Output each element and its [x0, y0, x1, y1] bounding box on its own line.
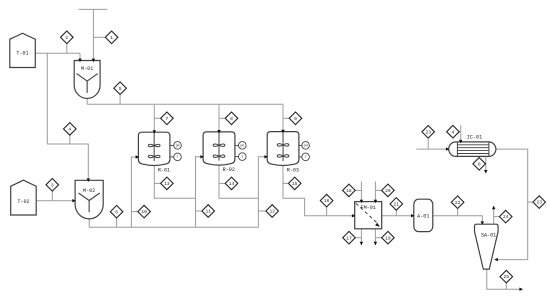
stream tag 9	[289, 112, 302, 125]
svg-text:T: T	[177, 155, 179, 159]
wire FM-01 bottom waste left	[360, 229, 362, 245]
arrow into FM-01 top right	[374, 200, 377, 204]
svg-text:3: 3	[51, 182, 54, 188]
coolant tag 8 at IC-01 outlet	[473, 158, 486, 171]
wire stub stream tag 5	[119, 94, 121, 104]
svg-text:1: 1	[110, 35, 113, 41]
svg-text:12: 12	[269, 209, 275, 215]
svg-text:R-01: R-01	[158, 167, 170, 173]
svg-text:R-03: R-03	[287, 167, 299, 173]
wire IC-01 bottom coolant return	[485, 156, 487, 171]
stream tag 7	[161, 112, 174, 125]
wire R-02 bottom outlet	[219, 165, 258, 198]
svg-text:pH: pH	[176, 144, 180, 148]
arrow into M-02 left from T-02	[72, 199, 76, 202]
stream tag 1	[105, 31, 118, 44]
wire stub stream tag 7	[154, 117, 160, 119]
wire stub stream tag 14	[219, 182, 225, 184]
svg-text:18: 18	[346, 188, 352, 194]
arrow into R-03 top	[281, 130, 284, 134]
wire IC-01 outlet down to SA-01 side	[495, 149, 528, 260]
arrow SA-01 bottoms right	[519, 288, 523, 291]
svg-text:FM-01: FM-01	[361, 205, 376, 211]
arrow into M-01 top left	[78, 59, 81, 63]
svg-text:21: 21	[394, 202, 400, 208]
wire T-01 branch into M-01 top	[79, 53, 81, 60]
stream tag 12	[266, 205, 279, 218]
wire drop into R-02 top	[218, 104, 220, 132]
arrow into M-02 top	[87, 178, 90, 182]
svg-text:T-01: T-01	[16, 51, 28, 57]
mixer M-01	[74, 61, 100, 99]
wire FM-01 top utility feed right	[374, 181, 376, 201]
arrow into FM-01 top left	[360, 200, 363, 204]
svg-text:22: 22	[455, 200, 461, 206]
arrow into R-02 top	[217, 130, 220, 134]
wire top feed drop into M-01	[92, 9, 94, 60]
wire stub stream tag 15	[283, 182, 289, 184]
stream tag 15	[288, 177, 301, 190]
svg-text:13: 13	[164, 181, 170, 187]
wire M-01 bottom outlet down	[86, 98, 88, 104]
stream tag 17	[343, 231, 356, 244]
instrument pH indicator on R-02	[235, 142, 246, 150]
stream tag 11	[202, 205, 215, 218]
stream tag 2	[61, 31, 74, 44]
stream tag 4	[64, 123, 77, 136]
svg-text:15: 15	[292, 181, 298, 187]
wire riser into R-01 left	[131, 157, 138, 227]
filter FM-01	[355, 202, 382, 229]
wire FM-01 permeate to A-01	[382, 215, 415, 217]
wire stub stream tag 10	[131, 211, 138, 213]
separator SA-01	[475, 224, 499, 269]
stream tag 14	[225, 177, 238, 190]
instrument T indicator on R-01	[170, 153, 181, 161]
wire riser into R-03 left	[258, 157, 267, 228]
wire M-01 outlet header to reactors	[87, 103, 283, 105]
svg-text:19: 19	[385, 235, 391, 241]
wire stub stream tag 4	[69, 135, 71, 144]
wire stub stream tag 16	[326, 207, 328, 216]
wire stub stream tag 12	[258, 210, 266, 212]
wire T-02 outlet into M-02	[36, 200, 75, 202]
reactor R-02	[203, 132, 235, 173]
wire drop into R-01 top	[153, 104, 155, 132]
svg-text:5: 5	[119, 86, 122, 92]
arrow into SA-01 right side	[494, 258, 498, 261]
wire stub stream tag 11	[196, 210, 203, 212]
wire IC-01 left feed	[417, 148, 449, 150]
svg-text:2: 2	[65, 35, 68, 41]
arrow SA-01 vent up	[492, 206, 495, 210]
reactor R-03	[267, 132, 299, 174]
svg-text:17: 17	[346, 235, 352, 241]
reactor R-01	[138, 132, 170, 173]
svg-text:16: 16	[324, 198, 330, 204]
wire stub stream tag 2	[66, 44, 68, 54]
stream tag 5	[114, 82, 127, 95]
stream tag 22	[451, 196, 464, 209]
wire riser into R-02 left	[196, 157, 203, 228]
arrow into A-01 left	[411, 214, 415, 217]
svg-text:pH: pH	[304, 144, 308, 148]
instrument pH indicator on R-01	[170, 142, 181, 150]
mixer M-02	[75, 180, 103, 219]
stream tag 23 at IC-01 inlet	[422, 126, 435, 139]
arrow into SA-01 top	[481, 221, 484, 225]
wire stub stream tag 25	[505, 283, 507, 289]
svg-text:8: 8	[230, 116, 233, 122]
svg-text:9: 9	[294, 116, 297, 122]
arrow into IC-01 top	[459, 140, 462, 144]
wire stub stream tag 17	[355, 237, 361, 239]
svg-text:4: 4	[68, 127, 71, 133]
wire stub stream tag 9	[283, 117, 289, 119]
svg-text:7: 7	[166, 116, 169, 122]
wire stub stream tag 22	[457, 208, 459, 215]
arrow into FM-01 left	[352, 214, 356, 217]
arrow into M-01 top right	[92, 59, 95, 63]
stream tag 25	[500, 270, 513, 283]
stream tag 24	[499, 210, 512, 223]
arrow IC-01 coolant return down	[484, 170, 487, 174]
arrow into R-01 left	[136, 155, 140, 158]
svg-text:A-01: A-01	[417, 213, 429, 219]
svg-text:6: 6	[115, 209, 118, 215]
wire R-01 bottom outlet	[154, 166, 195, 199]
svg-text:IC-01: IC-01	[467, 135, 482, 141]
svg-text:R-02: R-02	[223, 167, 235, 173]
wire IC-01 top coolant feed	[460, 125, 462, 142]
wire stub stream tag 6	[116, 218, 118, 227]
arrow into R-02 left	[200, 155, 204, 158]
arrow into R-01 top	[153, 130, 156, 134]
svg-text:T: T	[241, 155, 243, 159]
wire FM-01 top utility feed left	[360, 181, 362, 201]
svg-text:24: 24	[503, 214, 509, 220]
svg-text:M-02: M-02	[83, 188, 95, 194]
wire drop into R-03 top	[282, 104, 284, 131]
svg-text:20: 20	[385, 188, 391, 194]
wire stub to stream tag 1	[93, 36, 105, 38]
svg-text:pH: pH	[240, 144, 244, 148]
stream tag 8	[225, 112, 238, 125]
wire T-01 branch down to M-02	[47, 53, 88, 180]
svg-text:4: 4	[452, 129, 455, 135]
heat exchanger IC-01	[449, 135, 496, 157]
wire T-01 outlet horizontal	[35, 52, 80, 54]
adsorber A-01	[414, 199, 433, 231]
wire M-02 bottom outlet down	[88, 218, 90, 228]
wire stub stream tag 13	[154, 182, 160, 184]
wire stub stream tag 21	[395, 210, 397, 216]
wire stub stream tag 3	[51, 191, 53, 201]
stream tag 21	[390, 198, 403, 211]
wire SA-01 vapour vent	[493, 206, 495, 224]
arrow into IC-01 left	[446, 147, 450, 150]
stream tag 20	[382, 184, 395, 197]
arrow FM-01 waste right down	[374, 242, 377, 246]
stream tag 18	[343, 184, 356, 197]
stream tag 3	[46, 179, 59, 192]
wire stub stream tag 8	[219, 117, 225, 119]
svg-text:23: 23	[536, 200, 542, 206]
svg-text:T: T	[305, 155, 307, 159]
svg-text:8: 8	[478, 161, 481, 167]
arrow FM-01 waste left down	[360, 242, 363, 246]
coolant tag 4 at IC-01 inlet	[447, 125, 460, 138]
instrument T indicator on R-03	[299, 153, 310, 161]
arrow into R-03 left	[264, 155, 268, 158]
stream tag 10	[138, 205, 151, 218]
wire FM-01 bottom waste right	[374, 229, 376, 245]
tank T-02	[11, 180, 37, 215]
stream tag 19	[382, 231, 395, 244]
wire stub coolant tag	[459, 131, 461, 133]
wire stub stream tag 19	[375, 237, 381, 239]
svg-text:14: 14	[229, 181, 235, 187]
wire stub stream tag 18	[355, 189, 361, 191]
wire A-01 outlet to SA-01 top	[433, 216, 483, 224]
svg-text:25: 25	[504, 274, 510, 280]
tank T-01	[10, 33, 36, 67]
stream tag 23	[533, 196, 546, 209]
instrument T indicator on R-02	[235, 153, 246, 161]
instrument pH indicator on R-03	[299, 142, 310, 150]
wire stub stream tag 23a	[427, 139, 429, 149]
svg-text:10: 10	[141, 209, 147, 215]
stream tag 6	[110, 205, 123, 218]
stream tag 16	[320, 194, 333, 207]
svg-text:11: 11	[205, 209, 211, 215]
svg-text:T-02: T-02	[17, 199, 29, 205]
wire stub coolant return tag	[484, 163, 486, 165]
svg-text:23: 23	[425, 129, 431, 135]
svg-text:SA-01: SA-01	[481, 233, 496, 239]
wire R-03 bottom outlet to FM-01	[283, 166, 355, 216]
wire SA-01 bottoms outlet	[487, 269, 523, 289]
wire stub stream tag 23b	[528, 201, 533, 203]
wire top feed header bar	[79, 8, 108, 10]
wire stub stream tag 24	[494, 216, 500, 218]
wire bottom feed header	[89, 226, 258, 228]
stream tag 13	[161, 177, 174, 190]
wire stub stream tag 20	[375, 189, 381, 191]
svg-text:M-01: M-01	[81, 66, 93, 72]
